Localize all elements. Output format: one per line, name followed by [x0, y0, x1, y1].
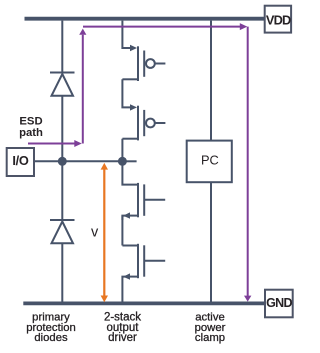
- ESD path arrow: down clamp branch to GND: [244, 27, 251, 302]
- pmos M2: [122, 104, 165, 140]
- svg-text:ESD: ESD: [19, 116, 42, 128]
- wire: pmos M2 to output node: [121, 139, 123, 162]
- svg-text:VDD: VDD: [266, 13, 291, 28]
- wire: output node to nmos M3: [122, 161, 138, 184]
- label: primary protection diodes: [26, 312, 76, 345]
- GND rail: [23, 301, 265, 305]
- svg-text:diodes: diodes: [34, 332, 68, 344]
- wire: power clamp to GND rail: [210, 182, 212, 301]
- svg-text:path: path: [19, 127, 43, 139]
- wire: nmos M4 to GND rail: [122, 277, 129, 302]
- ESD path arrow: along VDD rail to clamp branch: [83, 23, 247, 30]
- svg-text:PC: PC: [201, 153, 219, 168]
- nmos M4 top wire: [122, 245, 138, 247]
- wire: I/O box to output node: [34, 160, 122, 162]
- svg-text:GND: GND: [266, 296, 292, 310]
- wire: diode D1 to I/O node: [61, 96, 63, 162]
- GND box: [265, 290, 293, 318]
- node: driver output junction: [118, 157, 127, 166]
- VDD rail: [25, 17, 265, 21]
- power clamp PC box: [187, 141, 232, 183]
- node: I/O-diode junction: [58, 157, 67, 166]
- I/O box: [7, 148, 34, 176]
- nmos M3: [123, 183, 165, 219]
- wire: VDD rail to diode D1: [61, 21, 63, 73]
- wire: diode D2 to GND rail: [61, 243, 63, 301]
- wire: pmos M1 to pmos M2: [122, 79, 131, 107]
- svg-text:I/O: I/O: [12, 153, 29, 168]
- svg-text:v: v: [91, 224, 99, 240]
- label: active power clamp: [195, 312, 226, 345]
- wire: output node stub: [122, 160, 136, 162]
- wire: VDD rail to pmos M1: [122, 21, 131, 48]
- nmos M4: [123, 244, 165, 280]
- diode D1: [50, 73, 75, 96]
- wire: nmos M3 to nmos M4: [121, 216, 123, 246]
- ESD path arrow: I/O up to VDD rail: [28, 29, 86, 147]
- svg-text:clamp: clamp: [195, 332, 225, 344]
- wire: I/O node to diode D2: [61, 161, 63, 220]
- label: 2-stack output driver: [104, 312, 141, 345]
- voltage arrow V: [101, 163, 108, 302]
- diode D2: [50, 220, 75, 243]
- wire: nmos M3 source elbow: [122, 216, 129, 220]
- pmos M1: [122, 45, 165, 81]
- svg-text:driver: driver: [108, 332, 137, 344]
- wire: VDD rail to power clamp: [210, 21, 212, 141]
- VDD box: [265, 6, 291, 33]
